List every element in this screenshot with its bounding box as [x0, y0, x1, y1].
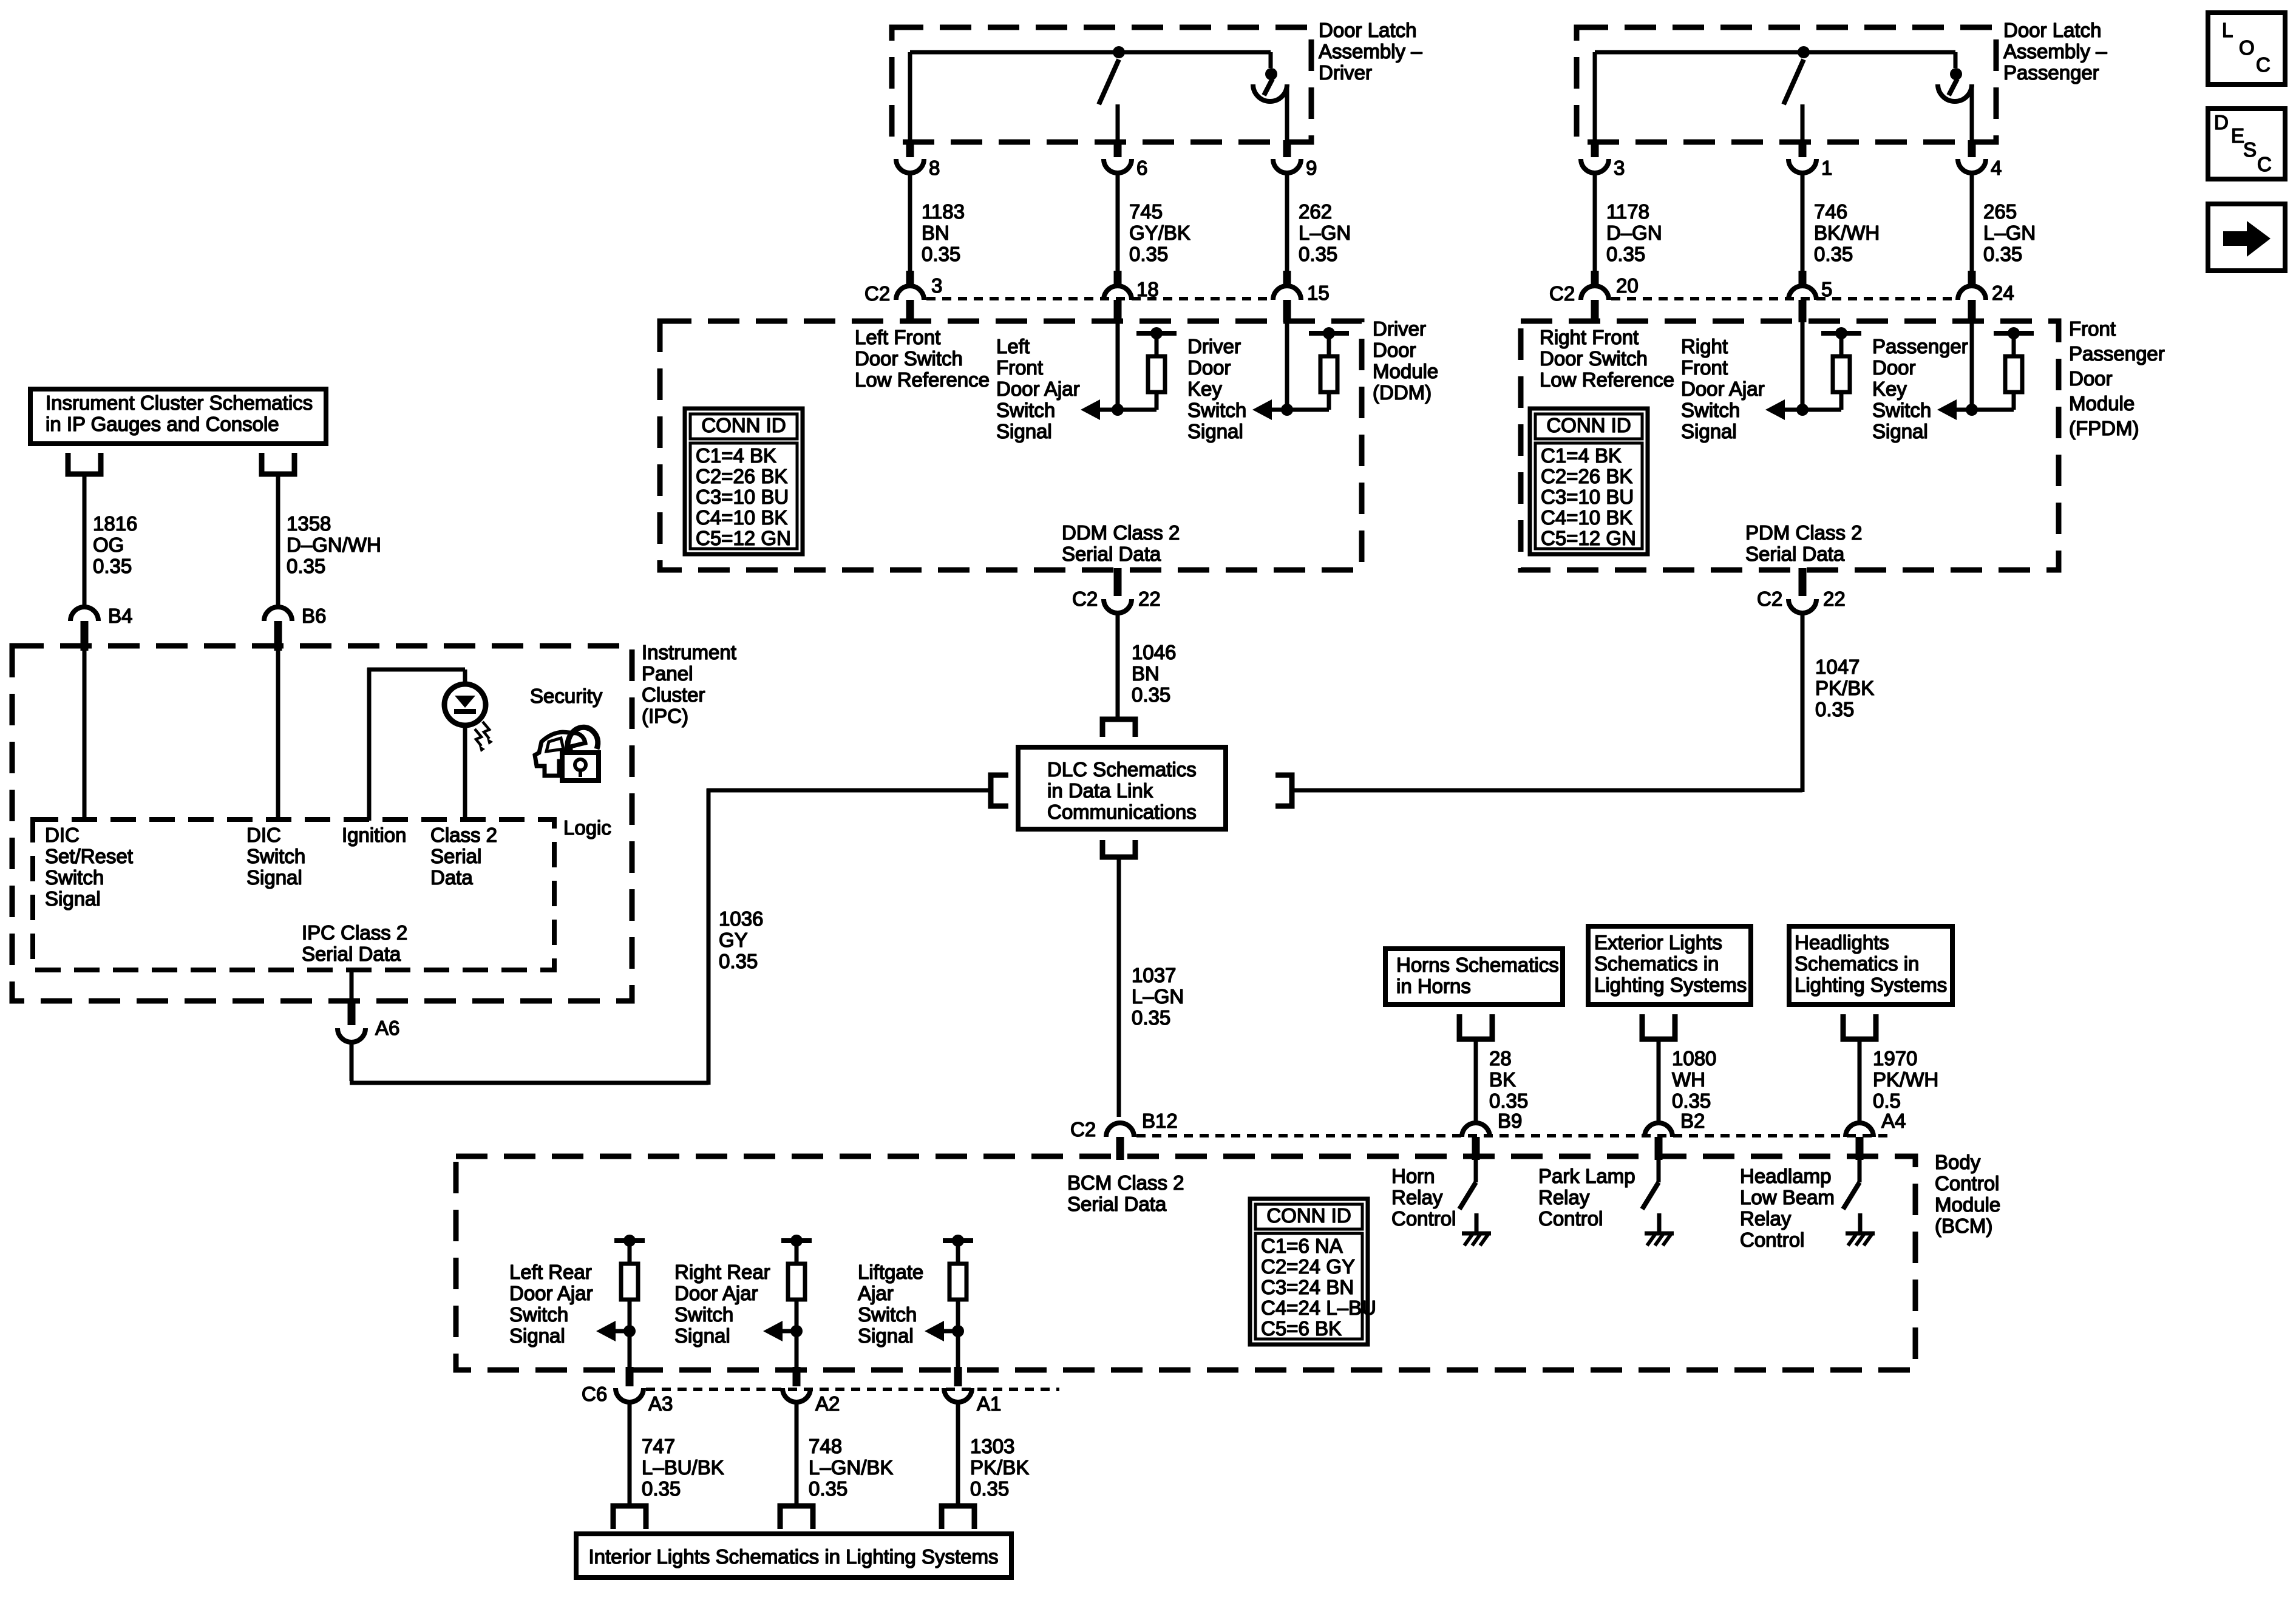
svg-text:Left Front: Left Front: [855, 326, 940, 348]
svg-text:5: 5: [1821, 278, 1832, 300]
label Passenger Door Key Switch Signal: [1872, 335, 1968, 442]
svg-text:1970: 1970: [1873, 1047, 1917, 1070]
label wire 1970 PK/WH 0.5: [1873, 1047, 1938, 1112]
svg-text:BCM Class 2: BCM Class 2: [1067, 1171, 1184, 1194]
svg-text:3: 3: [1614, 157, 1625, 179]
svg-text:22: 22: [1823, 588, 1846, 610]
label wire 1358 D-GN/WH 0.35: [287, 512, 381, 577]
label wire 265 L-GN 0.35: [1983, 200, 2036, 265]
svg-text:22: 22: [1138, 588, 1161, 610]
pin label B6: [302, 605, 326, 627]
svg-text:Relay: Relay: [1538, 1186, 1590, 1209]
reference box: Horns Schematics in Horns: [1385, 949, 1563, 1005]
LED light arrows: [475, 722, 493, 752]
svg-text:in Data Link: in Data Link: [1047, 779, 1153, 802]
off-page bracket B4 wire: [68, 453, 101, 607]
wire 1303 PK/BK: [956, 1401, 960, 1506]
label wire 1080 WH 0.35: [1672, 1047, 1716, 1112]
pin label 5 (C2 FPDM): [1821, 278, 1832, 300]
svg-text:Control: Control: [1740, 1229, 1804, 1251]
wire 265 L-GN: [1970, 172, 1974, 271]
label DDM Class 2 Serial Data: [1062, 521, 1180, 565]
rail: BCM pull-up R-BCM1: [614, 1238, 645, 1243]
svg-text:(DDM): (DDM): [1373, 381, 1432, 404]
label wire 747 L-BU/BK 0.35: [642, 1435, 724, 1500]
svg-text:Switch: Switch: [1872, 399, 1931, 421]
svg-text:18: 18: [1136, 278, 1159, 300]
svg-text:Serial Data: Serial Data: [1067, 1193, 1167, 1215]
connector C2 pin 22 (FPDM bottom): [1788, 568, 1816, 613]
svg-text:Switch: Switch: [858, 1303, 917, 1326]
svg-text:Signal: Signal: [674, 1324, 730, 1347]
svg-text:Horns Schematics: Horns Schematics: [1396, 954, 1559, 976]
svg-text:748: 748: [809, 1435, 842, 1457]
svg-text:Door Latch: Door Latch: [2003, 19, 2101, 41]
wire: R-BCM3 upper: [956, 1241, 960, 1264]
svg-text:0.35: 0.35: [1299, 243, 1337, 265]
svg-text:Door Switch: Door Switch: [1540, 347, 1648, 370]
svg-text:4: 4: [1991, 157, 2002, 179]
pin label 22 (DDM bottom): [1138, 588, 1161, 610]
legend box LOC: [2208, 13, 2285, 84]
svg-text:B2: B2: [1680, 1110, 1705, 1132]
svg-text:Switch: Switch: [246, 845, 305, 867]
connector C6 pin A3 (BCM bottom): [616, 1367, 644, 1402]
svg-text:Serial: Serial: [430, 845, 481, 867]
svg-text:C5=12 GN: C5=12 GN: [1541, 527, 1636, 549]
node: latch passenger switch junction: [1798, 46, 1810, 58]
svg-text:Schematics in: Schematics in: [1594, 952, 1719, 975]
node: DDM pull-up 2: [1323, 327, 1335, 339]
svg-text:Communications: Communications: [1047, 801, 1197, 823]
module box: Door Latch Assembly - Passenger: [1577, 27, 1996, 142]
label DIC Set/Reset Switch Signal: [45, 824, 133, 910]
label Left Rear Door Ajar Switch Signal: [509, 1261, 593, 1347]
svg-text:0.35: 0.35: [1672, 1090, 1711, 1112]
svg-text:Security: Security: [530, 685, 603, 707]
svg-text:20: 20: [1616, 274, 1639, 297]
svg-text:0.35: 0.35: [1815, 698, 1854, 720]
rail: FPDM pull-up 1: [1821, 331, 1861, 336]
label wire 748 L-GN/BK 0.35: [809, 1435, 893, 1500]
svg-text:Logic: Logic: [563, 816, 611, 839]
wire 1046 BN: [1116, 612, 1120, 719]
svg-text:Signal: Signal: [246, 866, 302, 889]
svg-text:C: C: [2256, 53, 2271, 76]
wire: class 2 serial data to logic: [463, 725, 467, 821]
svg-text:Lighting Systems: Lighting Systems: [1594, 974, 1747, 996]
wire: FPDM resistor 1 branch: [1839, 392, 1844, 410]
svg-text:1303: 1303: [970, 1435, 1014, 1457]
svg-text:0.35: 0.35: [1129, 243, 1168, 265]
arrow: liftgate ajar switch signal: [925, 1321, 958, 1341]
svg-text:C2: C2: [864, 282, 890, 305]
svg-text:1178: 1178: [1606, 200, 1649, 223]
arrow: left front door ajar switch signal: [1081, 399, 1156, 420]
svg-text:Low Reference: Low Reference: [855, 368, 990, 391]
svg-text:C2: C2: [1072, 588, 1098, 610]
svg-text:PK/BK: PK/BK: [970, 1456, 1029, 1479]
svg-text:Low Reference: Low Reference: [1540, 368, 1674, 391]
ground: park lamp relay: [1645, 1233, 1674, 1246]
wire: IPC class 2 exit: [350, 970, 354, 1000]
pin label 18 (C2 DDM): [1136, 278, 1159, 300]
svg-text:B4: B4: [108, 605, 132, 627]
wire: R-BCM1 lower: [628, 1300, 632, 1367]
svg-text:265: 265: [1983, 200, 2017, 223]
svg-text:1047: 1047: [1815, 656, 1860, 678]
svg-text:E: E: [2231, 124, 2244, 147]
svg-text:C2: C2: [1549, 282, 1575, 305]
rail: DDM pull-up 2: [1309, 331, 1349, 336]
pin label 4 (passenger latch): [1991, 157, 2002, 179]
svg-text:B12: B12: [1142, 1110, 1178, 1132]
pin label 8: [929, 157, 940, 179]
svg-text:A6: A6: [375, 1017, 399, 1039]
svg-text:0.35: 0.35: [1606, 243, 1645, 265]
wire: R-BCM3 lower: [956, 1300, 960, 1367]
svg-text:D–GN/WH: D–GN/WH: [287, 534, 381, 556]
pin label A1: [977, 1392, 1001, 1415]
label wire 1037 L-GN 0.35: [1132, 964, 1184, 1029]
pin label A6: [375, 1017, 399, 1039]
svg-text:OG: OG: [93, 534, 124, 556]
svg-text:Cluster: Cluster: [642, 683, 705, 706]
pin label B2: [1680, 1110, 1705, 1132]
svg-text:Serial Data: Serial Data: [302, 943, 401, 965]
pin label 1 (passenger latch): [1821, 157, 1832, 179]
svg-text:A3: A3: [648, 1392, 673, 1415]
svg-text:Lighting Systems: Lighting Systems: [1795, 974, 1947, 996]
svg-text:BN: BN: [922, 222, 949, 244]
dotted connector line (BCM bottom): [646, 1388, 1059, 1391]
svg-text:Signal: Signal: [509, 1324, 565, 1347]
svg-text:C2: C2: [1757, 588, 1782, 610]
connector pin 8 of driver latch: [896, 140, 924, 173]
svg-text:C2: C2: [1070, 1118, 1096, 1141]
svg-text:Front: Front: [1681, 356, 1728, 379]
svg-text:BN: BN: [1132, 662, 1160, 685]
label Security: [530, 685, 603, 707]
wire: FPDM resistor 1 to rail: [1839, 336, 1844, 356]
svg-text:Insrument Cluster Schematics: Insrument Cluster Schematics: [46, 392, 313, 414]
svg-text:DLC Schematics: DLC Schematics: [1047, 758, 1197, 781]
pin label B12: [1142, 1110, 1178, 1132]
svg-text:Assembly –: Assembly –: [2003, 40, 2107, 63]
module box: Front Passenger Door Module (FPDM): [1521, 321, 2059, 570]
svg-text:C5=6 BK: C5=6 BK: [1261, 1317, 1342, 1340]
svg-text:(FPDM): (FPDM): [2069, 417, 2139, 439]
svg-text:CONN ID: CONN ID: [1546, 414, 1631, 436]
resistor R-DDM1: [1148, 356, 1165, 392]
svg-text:in IP Gauges and Console: in IP Gauges and Console: [46, 413, 279, 435]
svg-text:0.35: 0.35: [1132, 1006, 1170, 1029]
node: FPDM key switch junction: [1966, 404, 1978, 416]
label Body Control Module (BCM): [1935, 1151, 2000, 1237]
wire 1037 L-GN: [1117, 857, 1121, 1117]
svg-text:in Horns: in Horns: [1396, 975, 1471, 997]
svg-text:Signal: Signal: [45, 887, 101, 910]
svg-text:DIC: DIC: [45, 824, 80, 846]
svg-text:Assembly –: Assembly –: [1319, 40, 1422, 63]
pin label 9: [1306, 157, 1317, 179]
svg-text:0.35: 0.35: [809, 1477, 847, 1500]
dotted connector line C2 (FPDM): [1611, 297, 1956, 300]
wire: FPDM resistor 2 to rail: [2012, 336, 2016, 356]
resistor R-FPDM2: [2005, 356, 2022, 392]
svg-text:Headlights: Headlights: [1795, 931, 1889, 954]
off-page bracket park lamp wire: [1642, 1014, 1675, 1124]
label Instrument Panel Cluster (IPC): [642, 641, 736, 727]
wire: passenger key switch to pin 4: [1970, 84, 1974, 144]
node: BCM pull-up R-BCM1: [623, 1235, 636, 1247]
label Right Front Door Ajar Switch Signal: [1681, 335, 1765, 442]
label Left Front Door Ajar Switch Signal: [996, 335, 1080, 442]
svg-text:GY/BK: GY/BK: [1129, 222, 1190, 244]
label connector C2 (DDM): [864, 282, 890, 305]
wire: DDM resistor 1 to rail: [1155, 336, 1159, 356]
svg-text:Door Ajar: Door Ajar: [674, 1282, 758, 1304]
arrow: right rear door ajar switch signal: [763, 1321, 796, 1341]
svg-text:0.35: 0.35: [922, 243, 960, 265]
svg-text:Module: Module: [1935, 1193, 2000, 1216]
off-page bracket headlamp wire: [1843, 1014, 1876, 1124]
svg-text:Switch: Switch: [45, 866, 104, 889]
svg-text:A1: A1: [977, 1392, 1001, 1415]
svg-text:C1=6 NA: C1=6 NA: [1261, 1235, 1343, 1257]
rail: BCM pull-up R-BCM3: [943, 1238, 973, 1243]
wire 746 BK/WH: [1801, 172, 1805, 271]
svg-text:Right Front: Right Front: [1540, 326, 1639, 348]
svg-text:C5=12 GN: C5=12 GN: [696, 527, 791, 549]
wire: R-BCM1 upper: [628, 1241, 632, 1264]
svg-text:Interior Lights Schematics in: Interior Lights Schematics in Lighting S…: [589, 1545, 999, 1568]
off-page bracket interior lights 3: [942, 1506, 974, 1529]
svg-text:Driver: Driver: [1373, 317, 1426, 340]
connector pin A6 (IPC bottom): [338, 998, 365, 1042]
off-page bracket B6 wire: [262, 453, 294, 607]
label wire 1046 BN 0.35: [1132, 641, 1176, 706]
label wire 262 L-GN 0.35: [1299, 200, 1351, 265]
svg-text:Door Switch: Door Switch: [855, 347, 963, 370]
connector C2 pin 22 (DDM bottom): [1104, 568, 1132, 613]
wire 1178 D-GN: [1593, 172, 1597, 271]
wire 262 L-GN: [1285, 172, 1289, 271]
connector C2 pin 20 (FPDM): [1581, 271, 1609, 322]
svg-text:C: C: [2257, 153, 2272, 175]
svg-text:S: S: [2243, 138, 2257, 161]
svg-text:Switch: Switch: [1681, 399, 1740, 421]
label Logic: [563, 816, 611, 839]
svg-text:PDM Class 2: PDM Class 2: [1745, 521, 1863, 544]
node: passenger key switch pivot: [1950, 68, 1962, 80]
switch: horn relay control: [1459, 1160, 1476, 1232]
svg-text:(BCM): (BCM): [1935, 1215, 1992, 1237]
pin label B4: [108, 605, 132, 627]
svg-text:PK/WH: PK/WH: [1873, 1068, 1938, 1091]
svg-text:Driver: Driver: [1319, 61, 1372, 84]
wire 745 GY/BK: [1116, 172, 1120, 271]
svg-text:L–GN: L–GN: [1299, 222, 1351, 244]
node: liftgate ajar junction: [952, 1325, 964, 1337]
label PDM Class 2 Serial Data: [1745, 521, 1863, 565]
svg-text:Front: Front: [996, 356, 1043, 379]
svg-text:Door Ajar: Door Ajar: [996, 378, 1080, 400]
svg-text:Relay: Relay: [1391, 1186, 1443, 1209]
label Ignition: [342, 824, 406, 846]
svg-text:Door Ajar: Door Ajar: [1681, 378, 1765, 400]
svg-text:PK/BK: PK/BK: [1815, 677, 1874, 699]
svg-text:C1=4 BK: C1=4 BK: [696, 444, 776, 467]
wire: B6 to logic box: [276, 651, 280, 821]
connector pin B2 (BCM): [1645, 1123, 1673, 1160]
label wire 1047 PK/BK 0.35: [1815, 656, 1874, 720]
svg-text:Schematics in: Schematics in: [1795, 952, 1919, 975]
wire: FPDM resistor 2 branch: [2012, 392, 2016, 410]
connector pin 6 of driver latch: [1104, 140, 1132, 173]
svg-text:Switch: Switch: [996, 399, 1055, 421]
svg-text:Door: Door: [1872, 356, 1916, 379]
svg-text:WH: WH: [1672, 1068, 1705, 1091]
node: BCM pull-up R-BCM3: [952, 1235, 964, 1247]
node: DDM key switch junction: [1281, 404, 1293, 416]
svg-text:747: 747: [642, 1435, 675, 1457]
module box: Door Latch Assembly - Driver: [892, 27, 1311, 142]
off-page bracket DLC bottom: [1102, 840, 1135, 857]
reference box: Headlights Schematics in Lighting Systems: [1789, 926, 1952, 1005]
pin label 6: [1136, 157, 1147, 179]
off-page bracket interior lights 2: [780, 1506, 813, 1529]
svg-text:A2: A2: [815, 1392, 840, 1415]
label BCM Class 2 Serial Data: [1067, 1171, 1184, 1215]
svg-text:Class 2: Class 2: [430, 824, 497, 846]
svg-text:Module: Module: [2069, 392, 2135, 415]
svg-text:Signal: Signal: [996, 420, 1052, 442]
svg-text:746: 746: [1814, 200, 1847, 223]
reference box: Interior Lights Schematics in Lighting Systems: [576, 1534, 1011, 1578]
resistor R-DDM2: [1320, 356, 1337, 392]
connector pin 4 of passenger latch: [1958, 140, 1986, 173]
wire: ignition feed: [367, 668, 465, 821]
label Driver Door Module (DDM): [1373, 317, 1438, 404]
connector C2 pin 15 (DDM): [1273, 271, 1301, 322]
node: DDM pull-up 1: [1150, 327, 1163, 339]
svg-text:Low Beam: Low Beam: [1740, 1186, 1835, 1209]
svg-text:Signal: Signal: [1872, 420, 1928, 442]
off-page bracket DLC right: [1275, 775, 1292, 806]
svg-text:O: O: [2239, 36, 2255, 59]
wire 1036 GY: [350, 788, 991, 1085]
label wire 745 GY/BK 0.35: [1129, 200, 1190, 265]
svg-text:Switch: Switch: [674, 1303, 733, 1326]
svg-text:L–BU/BK: L–BU/BK: [642, 1456, 724, 1479]
wire 748 L-GN/BK: [795, 1401, 799, 1506]
wire: passenger door ajar switch to pin 1: [1801, 104, 1805, 144]
connector pin 1 of passenger latch: [1788, 140, 1816, 173]
label connector C2 (FPDM): [1549, 282, 1575, 305]
svg-text:Horn: Horn: [1391, 1165, 1435, 1187]
svg-text:Passenger: Passenger: [2069, 342, 2165, 365]
node: right rear door ajar junction: [790, 1325, 803, 1337]
svg-text:24: 24: [1992, 282, 2014, 304]
svg-text:Passenger: Passenger: [1872, 335, 1968, 358]
wire: security LED anode: [463, 670, 467, 685]
switch: headlamp low beam relay control: [1843, 1160, 1860, 1232]
wire: FPDM pin 5 internal: [1801, 319, 1805, 410]
wire: driver door ajar switch to pin 6: [1116, 104, 1120, 144]
ground: headlamp low beam relay: [1846, 1233, 1875, 1246]
svg-text:Control: Control: [1935, 1172, 1999, 1195]
svg-text:C2=26 BK: C2=26 BK: [1541, 465, 1632, 487]
ground: horn relay: [1462, 1233, 1491, 1246]
label connector C2 (BCM): [1070, 1118, 1096, 1141]
connector C6 pin A1 (BCM bottom): [944, 1367, 972, 1402]
svg-text:C3=10 BU: C3=10 BU: [696, 486, 789, 508]
pin label 3 (passenger latch): [1614, 157, 1625, 179]
svg-text:Door Latch: Door Latch: [1319, 19, 1416, 41]
svg-text:0.35: 0.35: [1489, 1090, 1528, 1112]
svg-text:Liftgate: Liftgate: [858, 1261, 923, 1283]
connector pin B4 (IPC): [70, 607, 98, 651]
LED: security indicator: [444, 684, 486, 725]
node: DDM door ajar junction: [1112, 404, 1124, 416]
svg-text:Body: Body: [1935, 1151, 1981, 1173]
svg-text:Switch: Switch: [509, 1303, 568, 1326]
svg-text:1080: 1080: [1672, 1047, 1716, 1070]
node: latch driver switch junction: [1113, 46, 1125, 58]
svg-text:0.5: 0.5: [1873, 1090, 1901, 1112]
svg-text:Right: Right: [1681, 335, 1728, 358]
node: BCM pull-up R-BCM2: [790, 1235, 803, 1247]
legend box forward arrow: [2208, 204, 2285, 271]
node: FPDM pull-up 1: [1835, 327, 1847, 339]
resistor R-BCM3: [949, 1264, 966, 1300]
label Horn Relay Control: [1391, 1165, 1456, 1230]
svg-text:C2=26 BK: C2=26 BK: [696, 465, 787, 487]
svg-text:0.35: 0.35: [1132, 683, 1170, 706]
label wire 1178 D-GN 0.35: [1606, 200, 1662, 265]
svg-text:C3=10 BU: C3=10 BU: [1541, 486, 1634, 508]
svg-text:6: 6: [1136, 157, 1147, 179]
node: FPDM door ajar junction: [1796, 404, 1809, 416]
module box: Body Control Module (BCM): [456, 1156, 1915, 1370]
node: FPDM pull-up 2: [2008, 327, 2020, 339]
pin label 22 (FPDM bottom): [1823, 588, 1846, 610]
wire: DDM pin 18 internal: [1116, 319, 1120, 410]
switch: passenger door ajar switch blade: [1784, 59, 1804, 104]
pin label A2: [815, 1392, 840, 1415]
svg-text:C1=4 BK: C1=4 BK: [1541, 444, 1622, 467]
node: driver key switch pivot: [1265, 68, 1277, 80]
svg-text:Control: Control: [1391, 1207, 1456, 1230]
label DIC Switch Signal: [246, 824, 305, 889]
connector pin B9 (BCM): [1462, 1123, 1490, 1160]
svg-text:3: 3: [931, 274, 942, 297]
svg-text:1183: 1183: [922, 200, 965, 223]
svg-text:C6: C6: [582, 1383, 607, 1405]
arrow: driver door key switch signal: [1252, 399, 1329, 420]
connector pin A4 (BCM): [1846, 1123, 1873, 1160]
svg-text:0.35: 0.35: [719, 950, 758, 972]
svg-text:Serial Data: Serial Data: [1745, 543, 1845, 565]
wire: driver key switch to pin 9: [1285, 84, 1289, 144]
svg-text:Headlamp: Headlamp: [1740, 1165, 1831, 1187]
svg-text:Left Rear: Left Rear: [509, 1261, 592, 1283]
label connector C2 (DDM bottom): [1072, 588, 1098, 610]
svg-text:Passenger: Passenger: [2003, 61, 2099, 84]
svg-text:(IPC): (IPC): [642, 705, 688, 727]
pin label A3: [648, 1392, 673, 1415]
